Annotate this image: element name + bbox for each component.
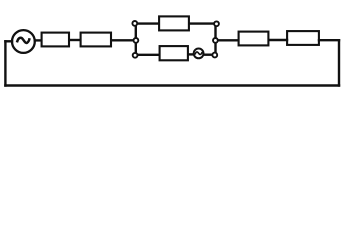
wire: bottom branch, left segment bbox=[136, 54, 159, 56]
wire V2 to bottom-right terminal bbox=[204, 54, 214, 56]
wire V1 to R1 bbox=[35, 39, 41, 41]
wire: right vertical of outer loop bbox=[338, 40, 340, 85]
terminal: left rail top bbox=[132, 21, 137, 26]
ac source V2 bbox=[194, 49, 204, 59]
resistor R6 bbox=[287, 31, 319, 45]
resistor R3 bbox=[159, 16, 189, 30]
wire: top branch, right segment bbox=[190, 22, 215, 24]
resistor R5 bbox=[239, 32, 269, 46]
wire R4 to source V2 bbox=[189, 53, 194, 55]
wire: bottom of outer loop bbox=[5, 84, 339, 86]
wire R5 to R6 bbox=[270, 39, 288, 41]
resistor R4 bbox=[160, 46, 188, 60]
wire: top branch, left segment bbox=[136, 22, 158, 24]
wire R2 to left rail bbox=[112, 39, 134, 41]
wire R1 to R2 bbox=[70, 39, 80, 41]
resistor R1 bbox=[42, 33, 69, 47]
ac source V1 bbox=[12, 30, 35, 53]
wire: left rail vertical bbox=[135, 24, 137, 55]
terminal: left rail bottom bbox=[133, 53, 138, 58]
terminal: right rail top bbox=[214, 21, 219, 26]
wire: stub left of source V1 bbox=[5, 40, 12, 42]
wire: right top segment into R6 bbox=[319, 39, 339, 41]
terminal: left rail middle bbox=[134, 38, 139, 43]
wire: left vertical of outer loop bbox=[4, 41, 6, 85]
terminal: right rail middle bbox=[213, 38, 218, 43]
wire: right rail vertical bbox=[214, 24, 216, 55]
resistor R2 bbox=[81, 33, 111, 47]
wire right rail to R5 bbox=[217, 39, 238, 41]
terminal: right rail bottom bbox=[212, 53, 217, 58]
